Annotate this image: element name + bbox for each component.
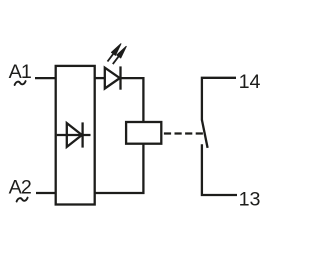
- wire A1 lead: [35, 77, 56, 79]
- AC symbol (~) under A2: [17, 198, 28, 202]
- contact blade (NO contact): [202, 120, 208, 148]
- LED D1: [105, 66, 121, 89]
- AC symbol (~) under A1: [15, 81, 26, 85]
- svg-text:A2: A2: [9, 177, 31, 199]
- terminal label 13: [239, 188, 261, 210]
- terminal label 14: [239, 71, 261, 93]
- svg-text:13: 13: [239, 188, 261, 210]
- terminal label A2: [9, 177, 31, 199]
- svg-text:A1: A1: [9, 61, 31, 83]
- LED emission arrows: [108, 44, 127, 64]
- mechanical link (dashed) coil to contact: [164, 132, 203, 134]
- wire block to LED: [95, 77, 105, 79]
- relay coil K1: [126, 122, 161, 144]
- wire terminal 14 lead: [202, 78, 236, 120]
- svg-text:14: 14: [239, 71, 261, 93]
- wire LED to relay coil: [121, 78, 143, 122]
- wire A2 lead: [36, 192, 56, 194]
- input block outline: [56, 66, 95, 205]
- wire coil to A2 rail: [95, 144, 144, 193]
- wire terminal 13 lead: [202, 144, 237, 195]
- diode V1 inside input block: [57, 122, 91, 147]
- terminal label A1: [9, 61, 31, 83]
